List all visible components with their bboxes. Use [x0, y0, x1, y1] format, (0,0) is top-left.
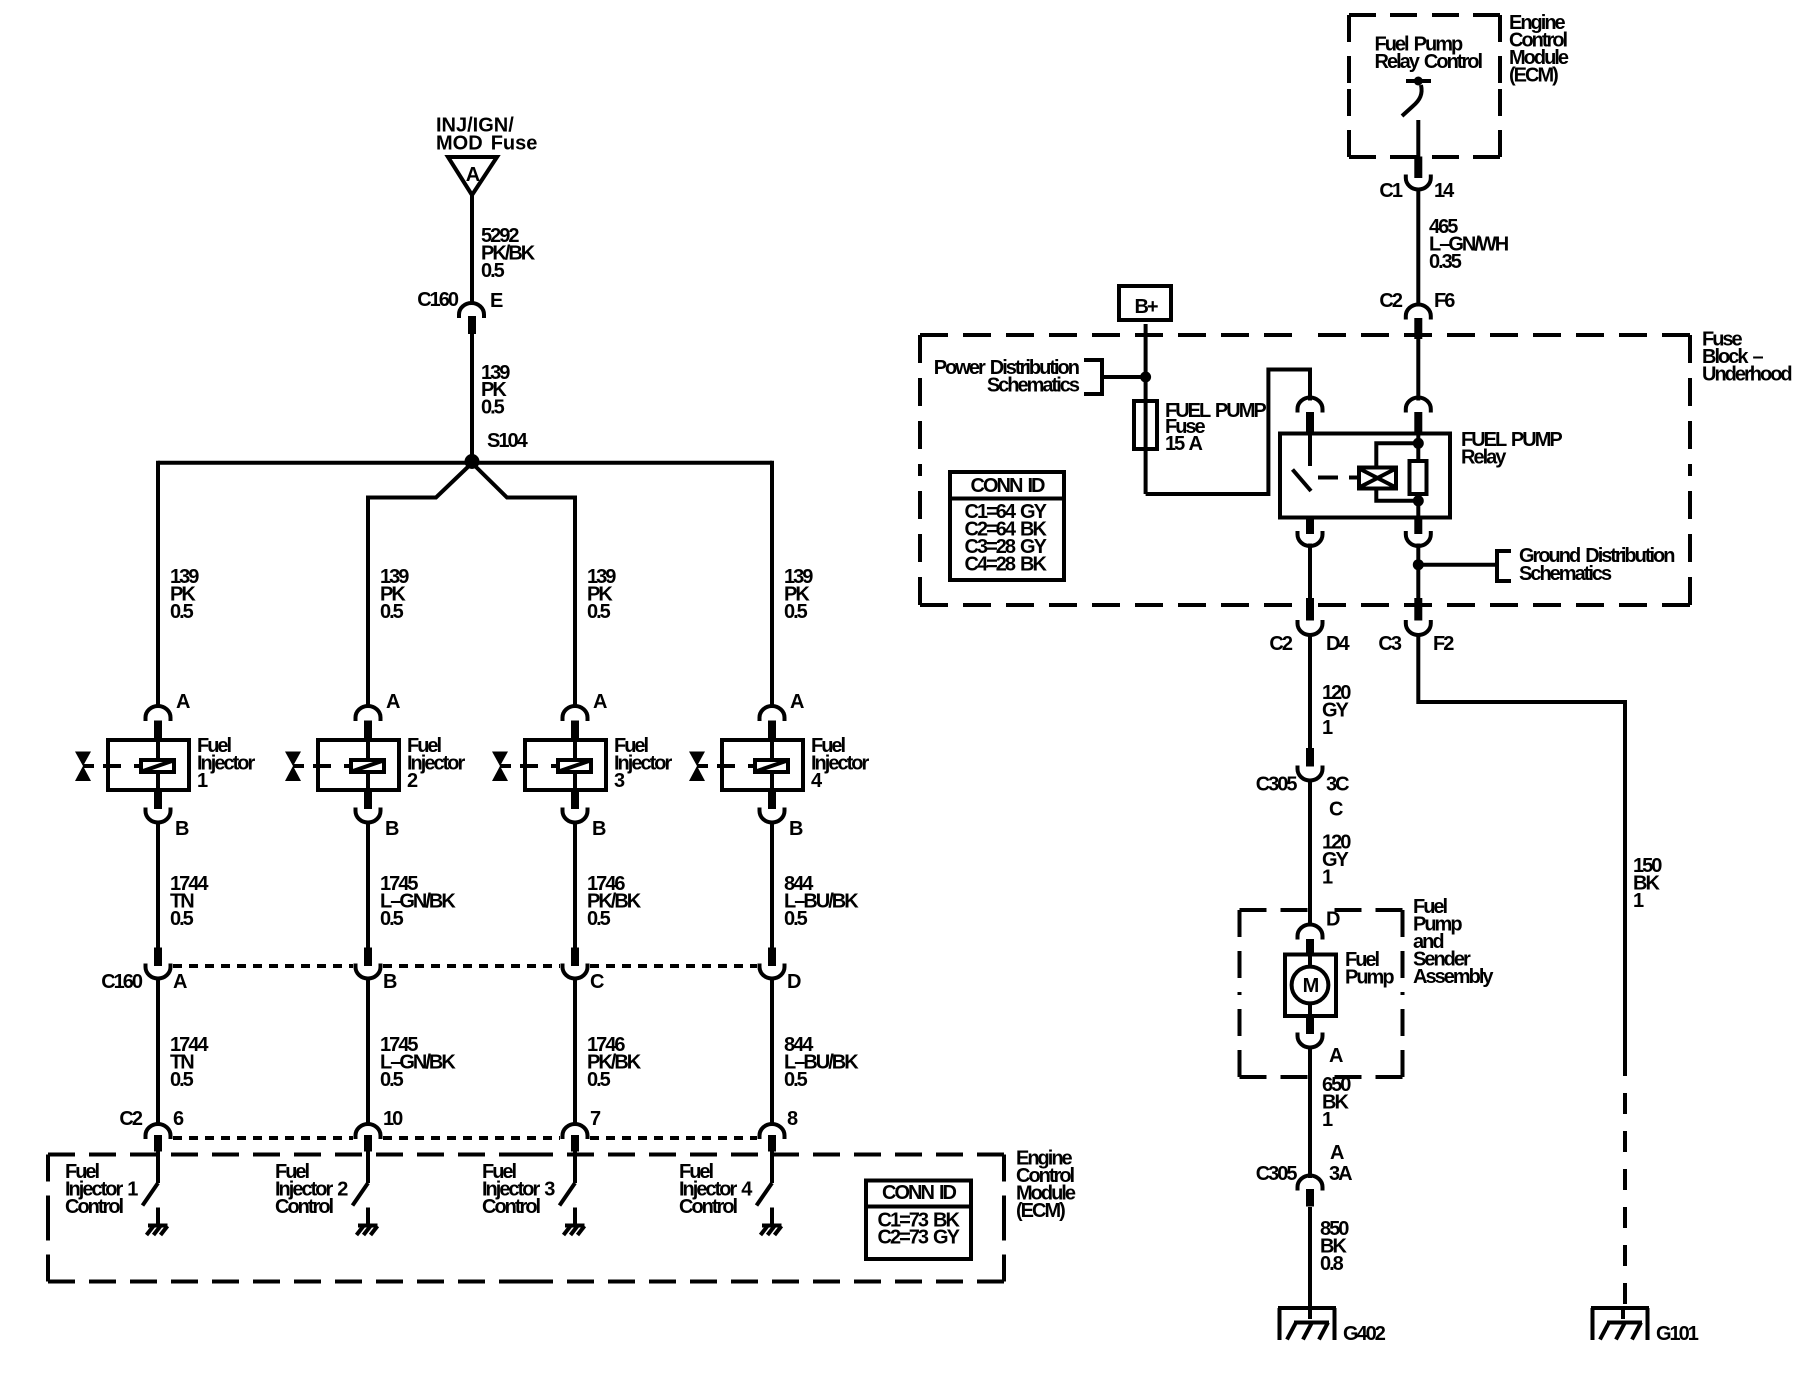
- svg-text:MOD Fuse: MOD Fuse: [436, 133, 537, 155]
- svg-text:14: 14: [1434, 180, 1455, 202]
- svg-text:G402: G402: [1343, 1323, 1386, 1345]
- svg-text:0.5: 0.5: [380, 908, 404, 930]
- svg-text:6: 6: [173, 1108, 184, 1130]
- svg-text:C160: C160: [417, 289, 459, 311]
- svg-text:A: A: [466, 164, 480, 186]
- svg-text:B: B: [592, 818, 606, 840]
- svg-text:Control: Control: [679, 1196, 738, 1218]
- svg-text:M: M: [1303, 975, 1319, 997]
- svg-text:0.5: 0.5: [784, 908, 808, 930]
- svg-text:C2: C2: [1379, 290, 1402, 312]
- svg-text:B: B: [175, 818, 189, 840]
- svg-text:10: 10: [383, 1108, 403, 1130]
- svg-text:A: A: [790, 691, 804, 713]
- svg-text:C305: C305: [1256, 774, 1298, 796]
- svg-text:CONN ID: CONN ID: [882, 1182, 957, 1204]
- svg-text:(ECM): (ECM): [1016, 1200, 1065, 1222]
- svg-text:Pump: Pump: [1345, 967, 1394, 989]
- svg-text:Relay: Relay: [1461, 447, 1507, 469]
- svg-text:0.8: 0.8: [1320, 1253, 1344, 1275]
- svg-text:S104: S104: [487, 430, 529, 452]
- svg-text:0.5: 0.5: [170, 601, 194, 623]
- svg-text:C2: C2: [1269, 633, 1292, 655]
- svg-text:A: A: [386, 691, 400, 713]
- svg-text:0.5: 0.5: [784, 601, 808, 623]
- svg-text:Schematics: Schematics: [987, 375, 1080, 397]
- svg-text:0.5: 0.5: [170, 908, 194, 930]
- svg-text:0.35: 0.35: [1429, 251, 1462, 273]
- svg-text:E: E: [490, 290, 503, 312]
- svg-text:Relay Control: Relay Control: [1375, 51, 1483, 73]
- svg-text:CONN ID: CONN ID: [971, 475, 1046, 497]
- svg-text:C: C: [1329, 799, 1343, 821]
- svg-text:C: C: [590, 971, 604, 993]
- svg-text:0.5: 0.5: [587, 1069, 611, 1091]
- svg-text:A: A: [593, 691, 607, 713]
- svg-text:Control: Control: [275, 1196, 334, 1218]
- svg-text:A: A: [1329, 1045, 1343, 1067]
- svg-text:C1: C1: [1379, 180, 1402, 202]
- svg-text:Schematics: Schematics: [1519, 563, 1612, 585]
- svg-text:C4=28 BK: C4=28 BK: [965, 554, 1048, 576]
- svg-text:D: D: [1326, 909, 1340, 931]
- svg-text:C2=73 GY: C2=73 GY: [878, 1227, 961, 1249]
- svg-text:Assembly: Assembly: [1413, 966, 1494, 988]
- svg-text:A: A: [1330, 1142, 1344, 1164]
- svg-text:G101: G101: [1656, 1323, 1699, 1345]
- svg-text:A: A: [176, 691, 190, 713]
- svg-text:A: A: [173, 971, 187, 993]
- svg-text:(ECM): (ECM): [1509, 65, 1558, 87]
- svg-text:0.5: 0.5: [587, 601, 611, 623]
- svg-text:3C: 3C: [1326, 774, 1349, 796]
- svg-text:0.5: 0.5: [380, 601, 404, 623]
- svg-text:Underhood: Underhood: [1702, 364, 1791, 386]
- svg-text:B: B: [789, 818, 803, 840]
- svg-text:3A: 3A: [1329, 1163, 1352, 1185]
- svg-text:F6: F6: [1434, 290, 1455, 312]
- svg-text:0.5: 0.5: [784, 1069, 808, 1091]
- svg-text:D: D: [787, 971, 801, 993]
- svg-text:7: 7: [590, 1108, 601, 1130]
- svg-text:B+: B+: [1134, 296, 1157, 318]
- svg-text:15 A: 15 A: [1165, 433, 1203, 455]
- svg-text:F2: F2: [1433, 633, 1454, 655]
- svg-text:B: B: [383, 971, 397, 993]
- svg-text:8: 8: [787, 1108, 798, 1130]
- svg-text:D4: D4: [1326, 633, 1350, 655]
- svg-text:0.5: 0.5: [380, 1069, 404, 1091]
- svg-text:0.5: 0.5: [481, 397, 505, 419]
- svg-text:Control: Control: [65, 1196, 124, 1218]
- svg-text:Control: Control: [482, 1196, 541, 1218]
- svg-text:C3: C3: [1378, 633, 1401, 655]
- svg-text:C2: C2: [119, 1108, 142, 1130]
- svg-text:C160: C160: [101, 971, 143, 993]
- svg-text:0.5: 0.5: [481, 260, 505, 282]
- svg-text:C305: C305: [1256, 1163, 1298, 1185]
- svg-text:B: B: [385, 818, 399, 840]
- svg-text:0.5: 0.5: [587, 908, 611, 930]
- svg-text:0.5: 0.5: [170, 1069, 194, 1091]
